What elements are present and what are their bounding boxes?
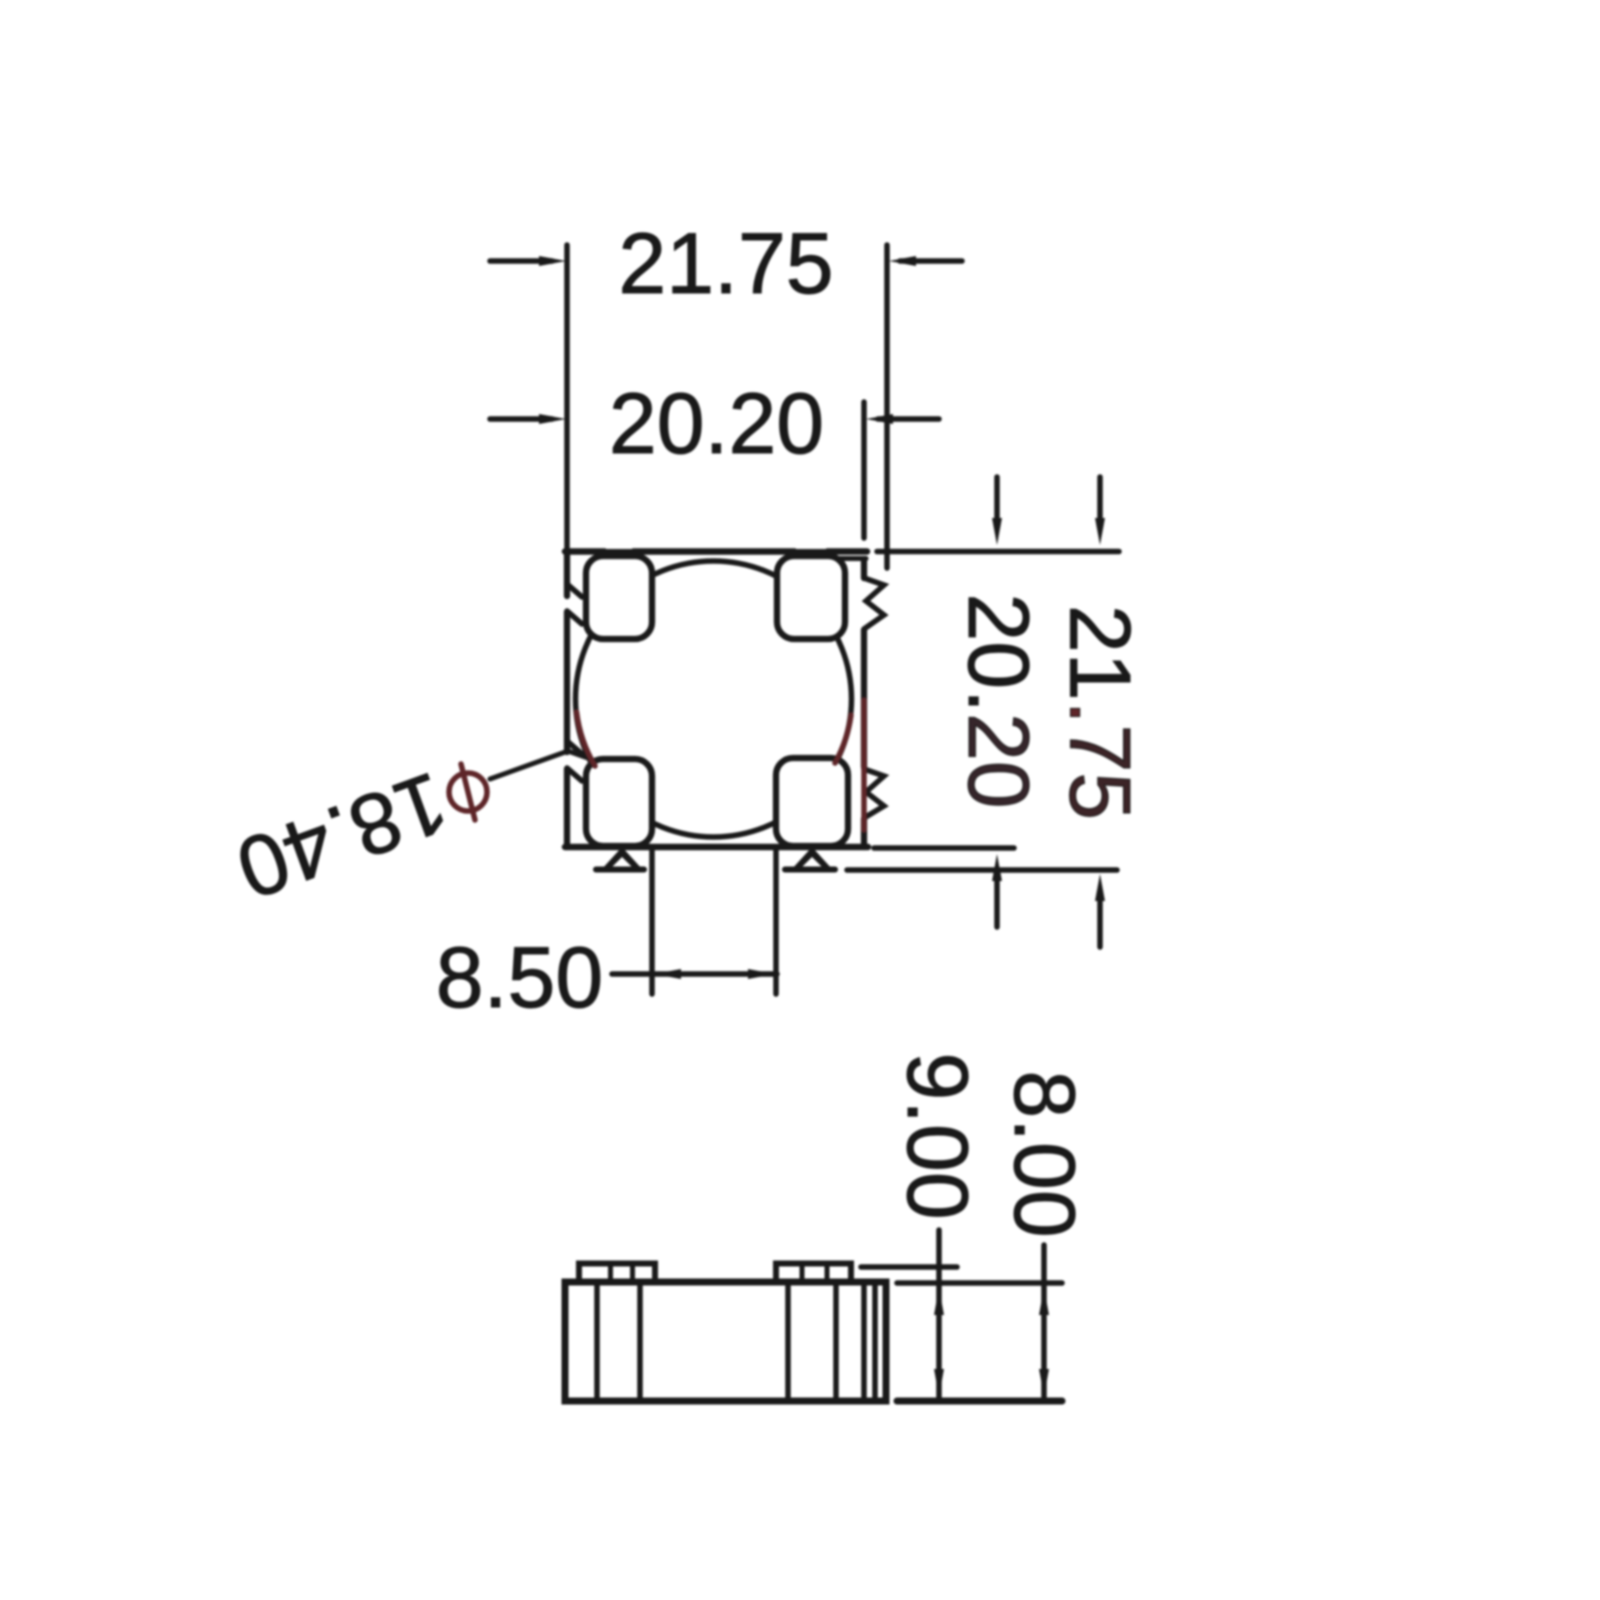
side view inner line d: [833, 1285, 839, 1398]
body left edge lower segment: [564, 769, 570, 847]
clip pad top-right: [777, 556, 845, 639]
side view inner line e: [861, 1285, 867, 1398]
svg-text:9.00: 9.00: [889, 1052, 985, 1219]
extension line right 21.75: [884, 245, 890, 568]
vertical dim stub top 21.75: [1097, 477, 1103, 521]
arrowhead down 21.75: [1095, 518, 1105, 545]
arrow right row2: [878, 416, 939, 422]
circle cavity φ18.40: [576, 561, 852, 837]
arrowhead right row1: [889, 256, 916, 266]
vertical dim stub top 20.20: [994, 477, 1000, 521]
arrowhead up 21.75: [1095, 874, 1105, 901]
side view inner line b: [637, 1285, 643, 1398]
side dim line 9.00: [936, 1230, 942, 1398]
side view bump right dividers: [802, 1266, 827, 1282]
clip pad bottom-left: [586, 759, 652, 846]
red accent circle right arc: [835, 715, 851, 763]
arrow left row2: [490, 416, 552, 422]
side reference line 9.00 top: [861, 1264, 957, 1270]
bottom reference line 20.20: [874, 845, 1014, 851]
arrowhead 8.50 left: [654, 969, 681, 979]
extension line right 20.20: [861, 402, 867, 538]
dimension line 8.50: [612, 971, 777, 977]
svg-text:21.75: 21.75: [1052, 605, 1148, 820]
top edge nick right: [797, 545, 825, 549]
body right edge middle segment: [861, 630, 867, 767]
bottom reference line 21.75: [847, 867, 1117, 873]
arrowhead 8.00 up: [1039, 1288, 1049, 1315]
arrowhead right row2: [866, 414, 893, 424]
svg-text:20.20: 20.20: [609, 376, 824, 472]
side reference line bottom: [897, 1398, 1062, 1405]
svg-text:21.75: 21.75: [618, 216, 833, 312]
extension line left shared (21.75/20.20): [564, 245, 570, 556]
body right edge lower segment: [861, 819, 867, 847]
arrowhead down 20.20: [992, 518, 1002, 545]
phi symbol of φ18.40 (stem): [461, 764, 475, 820]
top edge nick left: [607, 545, 631, 549]
side view body rectangle: [565, 1282, 886, 1401]
arrowhead left row2: [539, 414, 566, 424]
clip pad top-left: [586, 556, 652, 639]
body right edge upper segment: [861, 559, 867, 578]
side view bump left dividers: [611, 1266, 633, 1282]
svg-text:8.00: 8.00: [996, 1070, 1092, 1237]
right tab lower: [864, 769, 884, 818]
phi symbol of φ18.40 (bowl): [449, 773, 487, 811]
body left edge upper segment: [564, 551, 570, 596]
side reference line 8.00 top: [897, 1280, 1062, 1286]
foot right: [791, 847, 833, 870]
leader line φ18.40: [490, 751, 588, 779]
extension line 8.50 right: [773, 849, 779, 994]
foot left: [601, 847, 643, 870]
svg-text:18.40: 18.40: [225, 753, 460, 917]
arrowhead left row1: [539, 256, 566, 266]
arrowhead 8.00 down: [1039, 1369, 1049, 1396]
arrowhead 8.50 right: [748, 969, 775, 979]
body bottom edge: [565, 844, 868, 851]
body top edge step: [838, 556, 866, 561]
body top edge: [565, 548, 867, 555]
arrowhead 9.00 down: [934, 1369, 944, 1396]
arrowhead up 20.20: [992, 854, 1002, 881]
left seam notch lower: [567, 741, 582, 781]
arrow left row1: [490, 258, 552, 264]
side view bump left: [579, 1264, 655, 1283]
side dim line 8.00: [1041, 1245, 1047, 1398]
svg-text:8.50: 8.50: [436, 930, 603, 1026]
vertical dim stub bottom 21.75: [1097, 898, 1103, 947]
right tab upper: [864, 578, 884, 629]
side view inner line c: [785, 1285, 791, 1398]
side view inner line f: [872, 1285, 878, 1398]
body left edge middle segment: [564, 612, 570, 752]
left seam notch upper: [567, 584, 582, 624]
top reference line right (y=551.5): [877, 549, 1119, 555]
side view bump right: [776, 1264, 851, 1283]
arrow right row1: [900, 258, 962, 264]
vertical dim stub bottom 20.20: [994, 878, 1000, 927]
side view inner line a: [594, 1285, 600, 1398]
svg-text:20.20: 20.20: [950, 593, 1046, 808]
red accent right edge: [861, 700, 867, 830]
arrowhead 9.00 up: [934, 1288, 944, 1315]
extension line 8.50 left: [649, 849, 655, 994]
clip pad bottom-right: [776, 758, 848, 846]
red accent circle left arc: [577, 712, 596, 766]
